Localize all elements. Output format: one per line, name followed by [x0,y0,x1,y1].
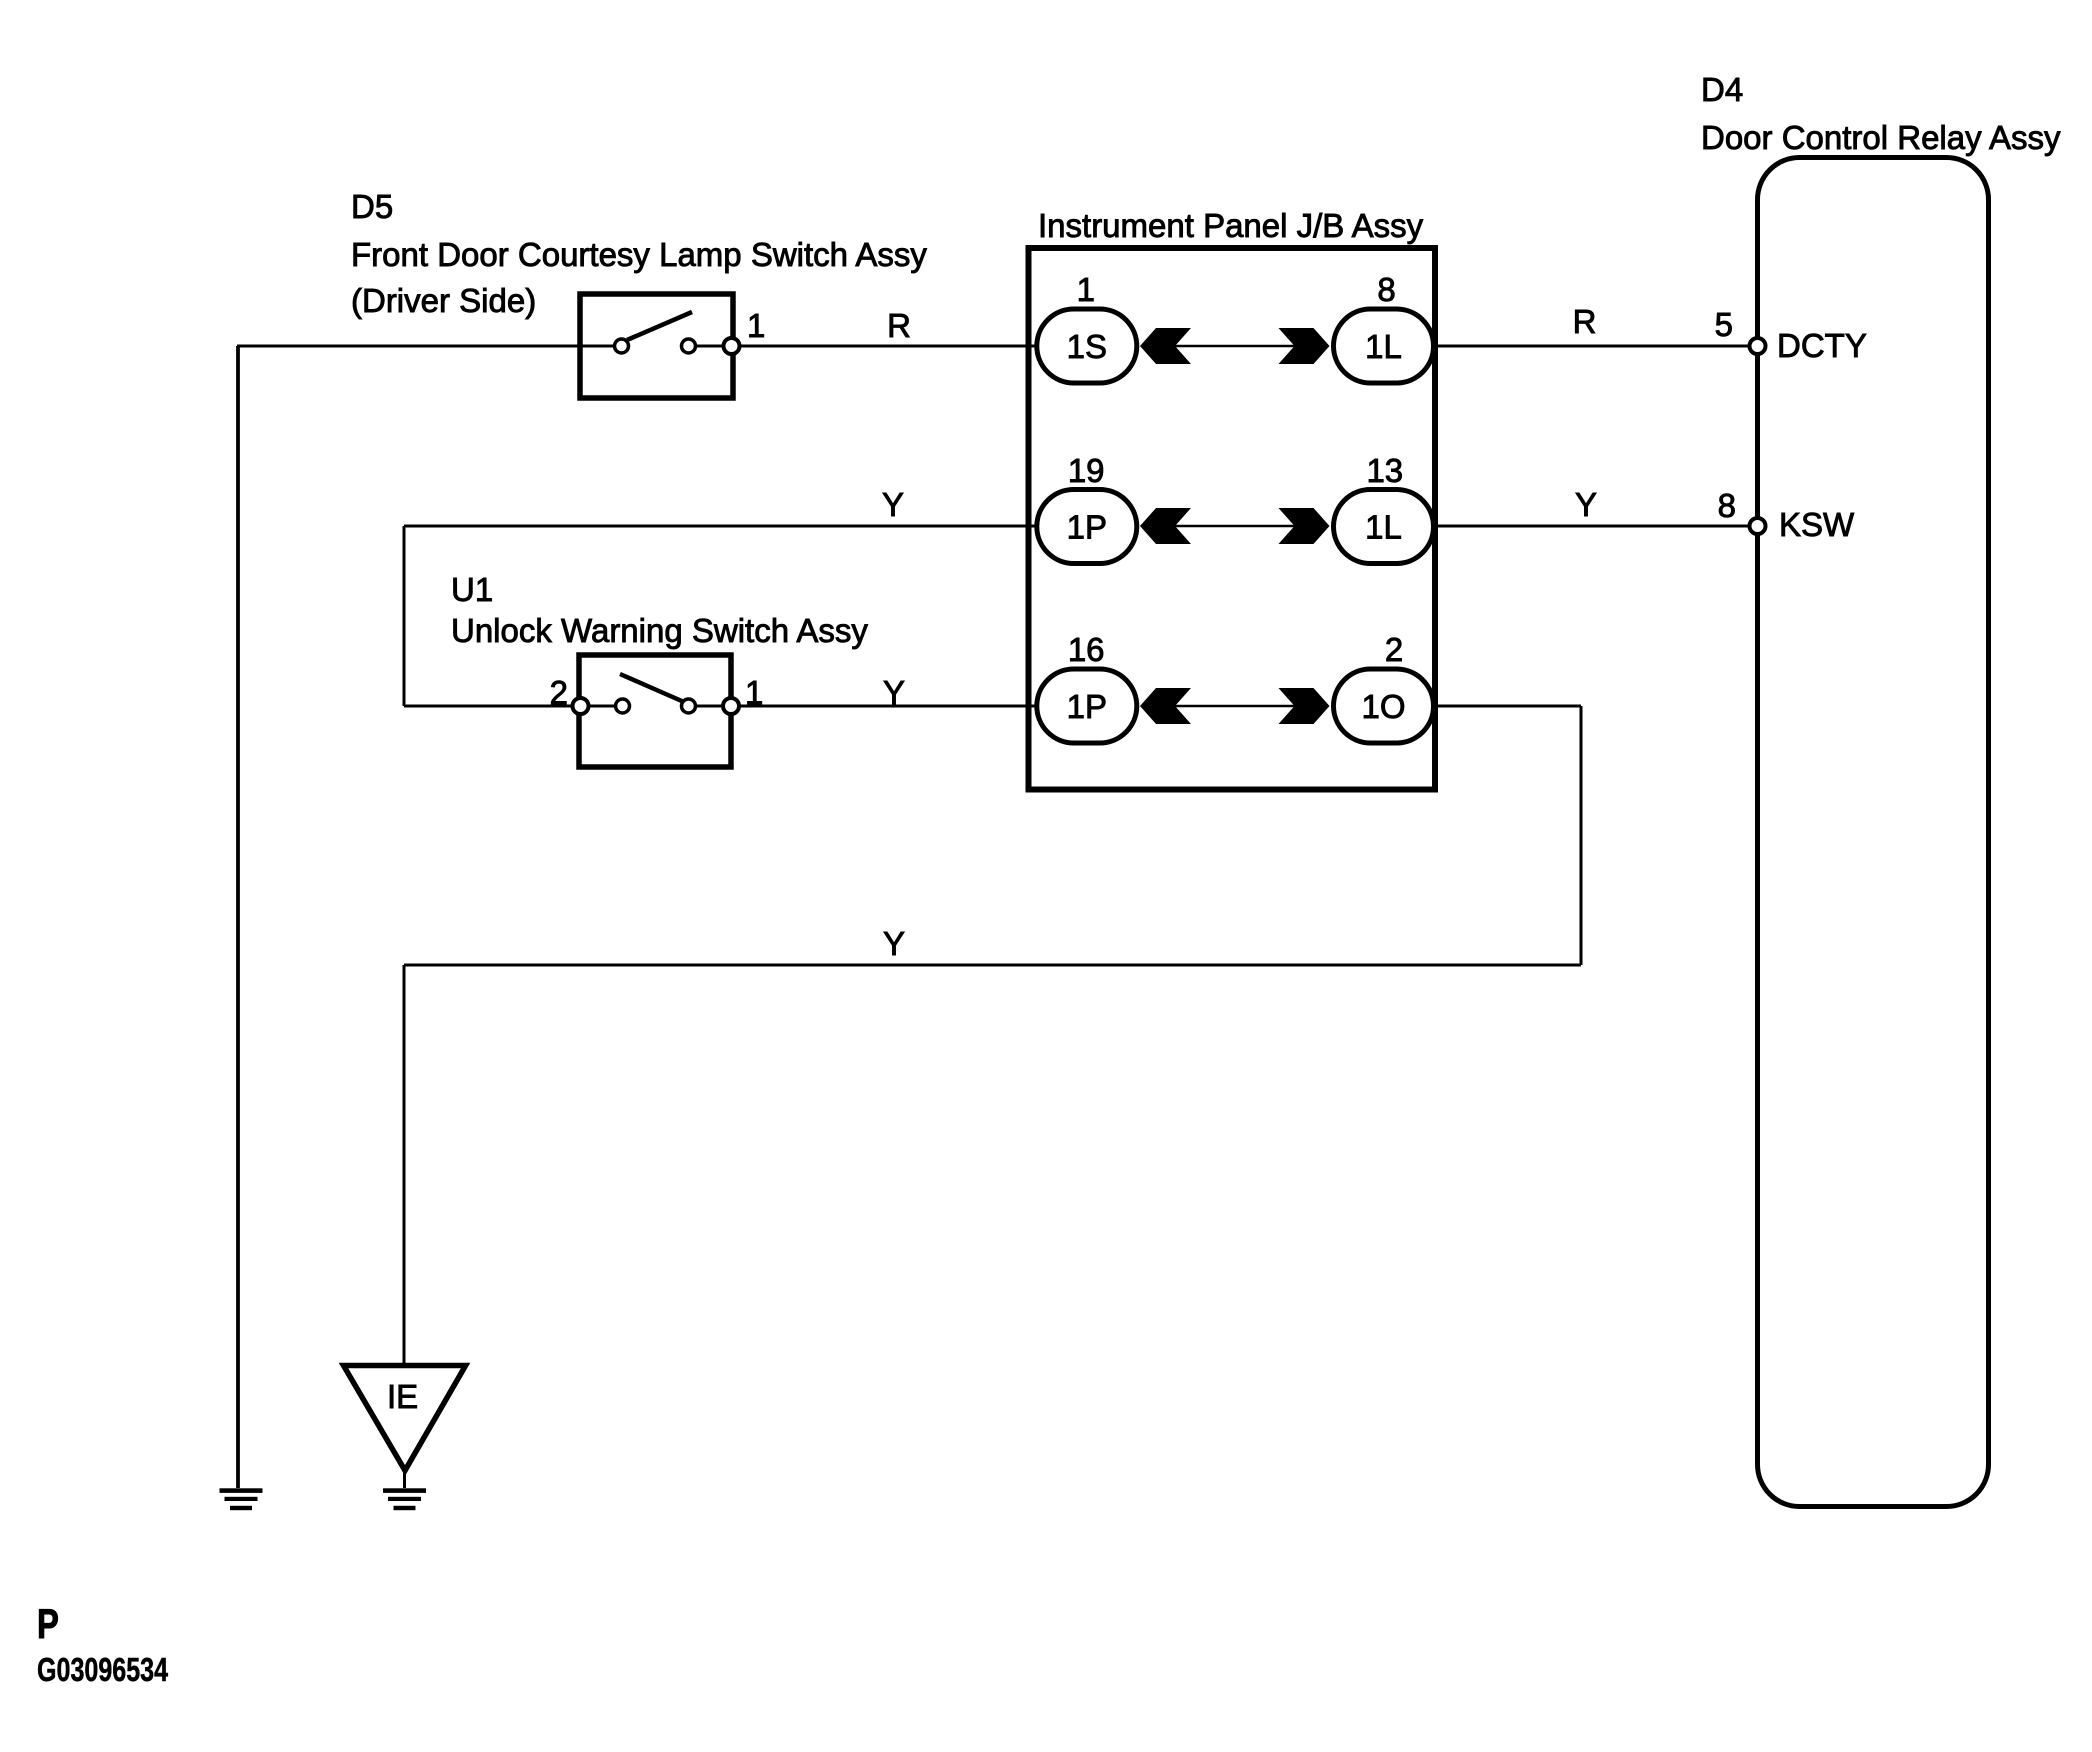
relay pin 8 circle KSW [1750,518,1766,534]
svg-text:19: 19 [1068,452,1105,489]
connector oval 1P row3 [1037,669,1137,743]
connector oval 1L row2 [1334,490,1434,564]
svg-text:1L: 1L [1365,328,1402,365]
connector oval 1O row3 [1334,669,1434,743]
switch U1 box [579,655,731,767]
svg-text:R: R [887,307,911,344]
switch D5 lever [627,312,692,340]
relay D4 box [1758,158,1989,1507]
svg-text:2: 2 [1385,631,1403,668]
svg-text:1O: 1O [1361,688,1405,725]
switch U1 lever [620,674,684,702]
wire: row2 Y wire from corner to J/B 1P oval [404,525,1035,528]
svg-text:1P: 1P [1067,688,1107,725]
connector oval 1S [1037,309,1137,383]
wire: row1 R wire from J/B 1L oval to relay pin 5 [1436,345,1757,348]
svg-text:KSW: KSW [1779,506,1855,543]
junction block: Instrument Panel J/B Assy box [1029,248,1436,790]
wire: row3 Y wire from vertical to U1 switch [404,705,614,708]
svg-text:U1: U1 [451,571,493,608]
svg-text:13: 13 [1366,452,1403,489]
svg-text:G03096534: G03096534 [37,1652,169,1689]
switch D5 contact circle left [615,339,629,353]
wire: vertical between row2 and row3 at x=404 [403,526,406,706]
wire: vertical drop at x=1581 from row3 to long Y wire [1580,706,1583,965]
arrow pair row3 [1140,688,1330,724]
svg-text:Y: Y [1575,486,1597,523]
svg-text:Y: Y [883,674,905,711]
ground IE triangle [344,1366,466,1471]
svg-text:8: 8 [1377,271,1395,308]
svg-text:1L: 1L [1365,509,1402,546]
svg-text:P: P [37,1600,59,1647]
wire: row1 R wire from left vertical to D5 switch [237,345,614,348]
svg-text:1: 1 [1077,271,1095,308]
wire: vertical from long Y wire down to IE triangle [403,965,406,1367]
svg-text:IE: IE [387,1378,418,1415]
svg-text:1: 1 [745,674,763,711]
switch U1 pin 2 circle [573,698,589,714]
svg-text:D4: D4 [1701,71,1743,108]
relay pin 5 circle DCTY [1750,338,1766,354]
wire: long Y wire horizontal [404,964,1581,967]
wire: row1 R wire from D5 contact to J/B 1S oval [697,345,1035,348]
arrow pair row1 [1140,328,1330,364]
svg-text:Instrument Panel J/B Assy: Instrument Panel J/B Assy [1038,207,1424,244]
svg-text:16: 16 [1068,631,1105,668]
arrow pair row2 [1140,508,1330,544]
connector oval 1P row2 [1037,490,1137,564]
switch D5 contact circle right [682,339,696,353]
svg-text:Y: Y [882,486,904,523]
svg-text:1: 1 [747,307,765,344]
wire: stub below IE triangle apex [403,1468,406,1488]
wire: row2 Y wire from J/B 1L oval to relay pin 8 [1436,525,1757,528]
switch D5 box [580,294,733,398]
svg-text:(Driver Side): (Driver Side) [351,282,536,319]
svg-text:2: 2 [550,674,568,711]
wire: row3 Y wire from U1 pin 1 to J/B 1P oval [697,705,1035,708]
ground symbol below IE [383,1488,426,1510]
switch D5 pin 1 circle [724,338,740,354]
svg-text:1P: 1P [1067,509,1107,546]
svg-text:8: 8 [1718,487,1736,524]
svg-text:D5: D5 [351,188,393,225]
svg-text:Y: Y [883,925,905,962]
svg-text:Front Door Courtesy Lamp Switc: Front Door Courtesy Lamp Switch Assy [351,236,927,273]
svg-text:5: 5 [1715,306,1733,343]
svg-text:R: R [1573,303,1597,340]
wire: left vertical ground wire at x=238 [236,346,240,1488]
svg-text:Door Control Relay Assy: Door Control Relay Assy [1701,119,2061,156]
connector oval 1L row1 [1334,309,1434,383]
wire: row3 wire from J/B 1O oval to right corner [1436,705,1581,708]
switch U1 contact circle right [682,699,696,713]
switch U1 contact circle left [616,699,630,713]
ground symbol left [220,1488,263,1510]
svg-text:DCTY: DCTY [1777,327,1867,364]
svg-text:Unlock Warning Switch Assy: Unlock Warning Switch Assy [451,612,868,649]
switch U1 pin 1 circle [723,698,739,714]
svg-text:1S: 1S [1067,328,1107,365]
